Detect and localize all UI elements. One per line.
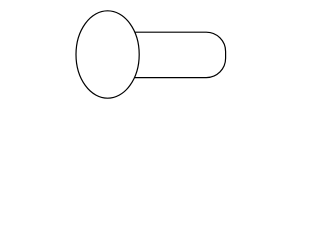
rivet shank (rounded body) xyxy=(130,32,226,77)
rivet head (ellipse) xyxy=(76,11,139,98)
